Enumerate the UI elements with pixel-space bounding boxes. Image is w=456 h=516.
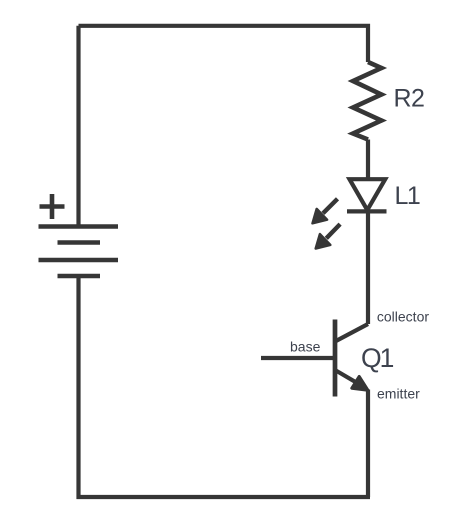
- LED arrow 1 shaft: [323, 199, 338, 214]
- LED arrow 2 shaft: [326, 224, 340, 238]
- battery plate long (positive top): [39, 224, 119, 229]
- wire: emitter down to bottom rail: [366, 390, 370, 498]
- transistor Q1 collector lead: [335, 324, 368, 342]
- LED arrow 2 head: [316, 234, 331, 248]
- svg-text:L1: L1: [395, 182, 420, 210]
- svg-text:Q1: Q1: [361, 343, 394, 373]
- battery plus sign: [40, 194, 65, 219]
- resistor R2: [353, 62, 382, 140]
- svg-text:base: base: [290, 339, 321, 355]
- transistor Q1 emitter arrow head: [352, 376, 368, 390]
- svg-text:R2: R2: [394, 85, 425, 113]
- transistor Q1 emitter lead: [335, 370, 364, 387]
- wire: resistor to LED anode: [366, 140, 370, 181]
- LED L1 diode triangle: [350, 179, 386, 210]
- wire: LED cathode to transistor collector: [366, 212, 370, 324]
- svg-text:emitter: emitter: [377, 386, 420, 402]
- wire: left rail top (battery positive up): [76, 26, 80, 227]
- wire: top rail from battery positive to resistor: [79, 24, 369, 62]
- LED arrow 1 head: [313, 209, 328, 223]
- svg-text:collector: collector: [377, 309, 429, 325]
- wire: bottom rail: [77, 495, 371, 499]
- battery plate long: [39, 258, 119, 263]
- battery plate short (negative bottom): [58, 274, 101, 279]
- wire: base lead: [261, 356, 335, 360]
- battery plate short: [58, 240, 101, 245]
- LED L1 cathode bar: [347, 209, 387, 213]
- transistor Q1 base bar: [333, 320, 338, 397]
- wire: left rail bottom (battery negative down): [76, 276, 80, 500]
